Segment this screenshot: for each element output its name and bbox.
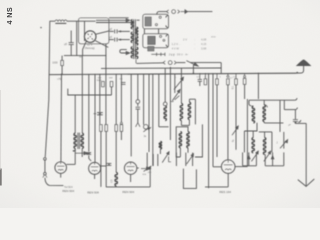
wire C4 to V3	[88, 155, 90, 158]
wire v x121	[120, 74, 122, 122]
paper speck	[40, 27, 41, 28]
wire L5 down	[179, 148, 181, 157]
wire v x147.2	[146, 153, 148, 169]
wire to transformer top b	[96, 22, 134, 24]
wire v x137.8	[137, 74, 139, 100]
coil L2 osc	[163, 102, 167, 106]
svg-text:NSW: NSW	[97, 80, 102, 82]
wire v x217	[216, 73, 218, 79]
trimmer arrow small	[143, 127, 149, 131]
transformer T1 secondary winding 3	[135, 47, 137, 58]
wire antenna coil to detector	[67, 20, 96, 22]
svg-text:4,15: 4,15	[201, 42, 207, 46]
transformer T2 core	[77, 133, 79, 149]
IF coil L4a	[180, 104, 182, 121]
switch arm B	[172, 91, 179, 101]
transformer T1 secondary winding 2	[135, 36, 137, 45]
tube V2 electrodes	[57, 165, 64, 167]
wire to transformer top a	[96, 19, 126, 21]
main bus end hook	[296, 70, 303, 73]
mains plug connector	[167, 10, 169, 13]
svg-text:4 NS: 4 NS	[5, 7, 14, 25]
wire left rail vertical	[45, 21, 50, 157]
selector hooks	[166, 35, 168, 37]
wire v x157.8	[157, 154, 159, 166]
wire bottom run	[106, 186, 150, 188]
scan artifact left edge	[0, 169, 2, 186]
wire v x248.8	[248, 152, 250, 165]
capacitor C1 trimmer 5pF	[69, 42, 74, 44]
IF2 jog right	[259, 131, 272, 133]
wire v x244.4 down	[243, 131, 245, 152]
wire v x149	[148, 74, 150, 152]
IF coil L7a	[252, 138, 254, 153]
lamp circle	[144, 125, 149, 130]
wire switch line right	[190, 62, 221, 64]
wire V5 left	[213, 166, 221, 168]
wire v x106	[105, 44, 107, 125]
wire upper bus	[101, 67, 221, 69]
switch arm C	[162, 153, 168, 162]
wire return line H4	[68, 89, 112, 95]
wire R1 to bus	[61, 66, 63, 75]
hanging cap Ce	[243, 78, 246, 84]
wire T2 secondary up	[81, 56, 83, 134]
capacitor C4 at V3 grid	[86, 152, 91, 154]
wire V2 anode right	[67, 163, 76, 165]
wire v x174.8	[174, 74, 176, 93]
wire V5 bottom	[227, 173, 229, 187]
voltage selector box	[143, 34, 169, 48]
capacitor C7	[293, 119, 298, 121]
IF coil L5a	[179, 132, 181, 148]
transformer T2 secondary	[81, 133, 83, 148]
wire v x283.8	[283, 152, 285, 165]
wire T1 top leads	[137, 19, 140, 21]
wire L4 join	[180, 120, 182, 125]
svg-text:4 V W: 4 V W	[172, 47, 180, 51]
resistor R1 1000	[61, 60, 64, 65]
wire v x213 to V5	[212, 73, 214, 167]
wire L6b bottom right	[263, 121, 265, 123]
wire T1 to H2 link	[135, 59, 137, 63]
wire V5 right	[235, 166, 247, 168]
svg-text:2′4 V·· 5′6 V·· 4≈: 2′4 V·· 5′6 V·· 4≈	[169, 52, 189, 56]
wire V1 left down	[83, 41, 87, 49]
switch wiper arrow	[186, 61, 195, 66]
svg-text:RES 164: RES 164	[219, 190, 231, 194]
wire v x181.4 top	[180, 68, 182, 103]
transformer T2 primary	[74, 133, 76, 148]
wire C1 bottom	[70, 45, 72, 56]
node x193	[193, 72, 195, 74]
capacitor C5	[97, 112, 103, 114]
variable cap arrow	[283, 132, 285, 149]
wire C1 top	[70, 31, 72, 43]
svg-text:4,08: 4,08	[201, 37, 207, 41]
wire T2 tap arrow	[75, 152, 84, 154]
wire v x88.8	[88, 74, 90, 152]
wire V4 right	[137, 167, 139, 169]
wire drop x193	[192, 65, 194, 73]
svg-text:12 V: 12 V	[87, 43, 93, 47]
transformer T1 primary winding 3	[131, 47, 133, 58]
wire v x176 gap	[175, 153, 177, 166]
tube V4 envelope	[124, 162, 136, 174]
wire x76 drop	[76, 21, 78, 55]
wire main bus	[49, 73, 297, 74]
box terminal hooks	[166, 15, 169, 17]
capacitor C3 coupling	[109, 39, 114, 41]
IF coil L6a hook	[249, 100, 251, 106]
wire v x242.6	[242, 152, 244, 165]
wire v x271.9 down	[271, 132, 273, 153]
wire v x95	[94, 74, 96, 162]
selector plate 1	[148, 36, 156, 44]
wire V3 right	[101, 165, 106, 167]
node T2 bottom	[73, 150, 75, 152]
coil L8	[115, 173, 117, 186]
wire T2 primary up	[74, 95, 76, 133]
box link wires	[143, 29, 145, 34]
resistor R4	[115, 125, 118, 132]
wire v x208.6	[208, 73, 210, 188]
wire mains lead top	[157, 12, 168, 15]
wire v x153.2	[152, 154, 154, 166]
IF coil L4b	[188, 102, 190, 119]
wire v x116	[115, 74, 117, 125]
node R1 bus junction	[61, 73, 63, 75]
resistor R5 with ring	[120, 125, 123, 132]
IF jog right	[195, 99, 202, 157]
transformer T1 secondary winding 1	[135, 27, 137, 35]
switch arm E	[251, 153, 257, 162]
box around detector tube	[79, 18, 109, 44]
wire v x280	[279, 100, 281, 132]
wire V2 cathode	[60, 173, 62, 177]
terminal post 1	[44, 158, 47, 161]
capacitor C8	[107, 162, 112, 164]
wire v x228 to V5 top	[227, 73, 229, 75]
wire v x152.8	[152, 74, 154, 166]
wire v x170.4	[169, 67, 171, 140]
wire L2 up	[164, 68, 166, 102]
wire v x272.6	[272, 152, 274, 165]
tube V5 electrodes	[224, 164, 233, 166]
antenna loop coil L1	[55, 20, 67, 21]
selector plate 2	[148, 46, 154, 51]
wire R2R3 down	[100, 131, 102, 187]
tube V4 electrodes	[127, 166, 135, 168]
wire C7 to earth line	[294, 122, 296, 124]
wire drop x221	[220, 63, 222, 74]
IF jog left	[176, 127, 188, 157]
wire V1 right down	[95, 41, 108, 48]
stub terminal 2	[284, 109, 295, 111]
wire C7 up	[294, 110, 296, 120]
IF coil L6a	[252, 106, 254, 122]
tube V3 electrodes	[91, 166, 99, 168]
antenna symbol	[297, 60, 310, 66]
hanging res Rd	[216, 79, 219, 85]
wire v x256.4	[255, 153, 257, 166]
selector contact row	[151, 53, 165, 55]
antenna stem	[303, 65, 305, 71]
wire V3 bottom	[94, 174, 96, 179]
wire v x258 from bus	[257, 73, 259, 99]
wire switch line	[137, 62, 164, 65]
wire IF2 top join	[249, 99, 295, 101]
transformer T1 primary winding 1	[131, 20, 133, 29]
wire v x265.2	[264, 154, 266, 166]
big bracket	[183, 169, 196, 189]
heater link hook	[120, 50, 127, 53]
capacitor C6 inline	[136, 100, 140, 104]
wire split Y	[136, 123, 140, 127]
wire between posts	[44, 160, 46, 172]
terminal post 2	[44, 172, 47, 175]
IF coil L6b	[263, 105, 265, 121]
svg-text:1000: 1000	[52, 61, 58, 64]
pot arrow V4	[144, 167, 150, 172]
mains connector box	[143, 14, 169, 28]
switch block bottom right	[265, 165, 284, 167]
transformer T1 core	[133, 19, 135, 59]
wire v x131.2 to V4	[130, 74, 132, 156]
tube V3 envelope	[89, 162, 101, 174]
switch arm A	[174, 79, 183, 90]
IF2 jog left	[244, 123, 257, 131]
wire T2 secondary down	[81, 148, 83, 157]
transformer T1 primary winding 2	[131, 32, 133, 42]
tube V1 socket 12V	[84, 31, 96, 43]
IF coil L5b	[187, 132, 189, 148]
wire post2 to label	[45, 178, 64, 186]
switch arm G	[185, 153, 187, 166]
tube V5 envelope	[221, 160, 235, 174]
svg-text:REN 904: REN 904	[62, 189, 74, 193]
wire v x100	[99, 74, 101, 112]
wire v x143.6	[143, 74, 145, 125]
svg-text:REN 904: REN 904	[122, 190, 134, 194]
earth lead	[305, 123, 307, 185]
fuse block in box	[145, 17, 151, 26]
wire R1 top	[61, 56, 63, 61]
IF coil L7b	[263, 138, 265, 154]
wire V1 right up	[96, 31, 110, 34]
earth arrow	[298, 179, 315, 186]
wire mains lead right	[187, 11, 212, 13]
svg-text:1,2 V…: 1,2 V…	[172, 42, 181, 46]
tube V2 envelope	[55, 162, 67, 174]
wire bus to V2	[60, 75, 63, 162]
resistor R2	[100, 125, 103, 132]
svg-text:2 V: 2 V	[183, 37, 187, 41]
arrow D	[141, 168, 147, 170]
svg-text:3,68: 3,68	[201, 47, 207, 51]
capacitor C2 coupling	[110, 30, 114, 32]
wire v x284.3	[283, 100, 285, 109]
coil L3	[159, 142, 161, 149]
switch block bottom left	[243, 165, 257, 167]
wire switch line mid	[177, 62, 186, 64]
resistor R3	[105, 125, 108, 132]
svg-text:(Heizung): (Heizung)	[85, 48, 95, 50]
wire v x158.8 jog	[158, 74, 160, 127]
IF coil L6b hook	[264, 105, 267, 107]
wire antenna to left rail	[50, 20, 56, 22]
pot arrow 50	[232, 128, 238, 136]
wire heater bus	[64, 55, 107, 57]
wire branch x84	[84, 21, 86, 41]
svg-text:REN 904: REN 904	[87, 190, 99, 194]
switch arm F	[264, 153, 270, 162]
switch connector	[163, 61, 165, 64]
wire V4 bottom	[130, 175, 132, 182]
trimmer cap arrow C	[175, 96, 180, 100]
